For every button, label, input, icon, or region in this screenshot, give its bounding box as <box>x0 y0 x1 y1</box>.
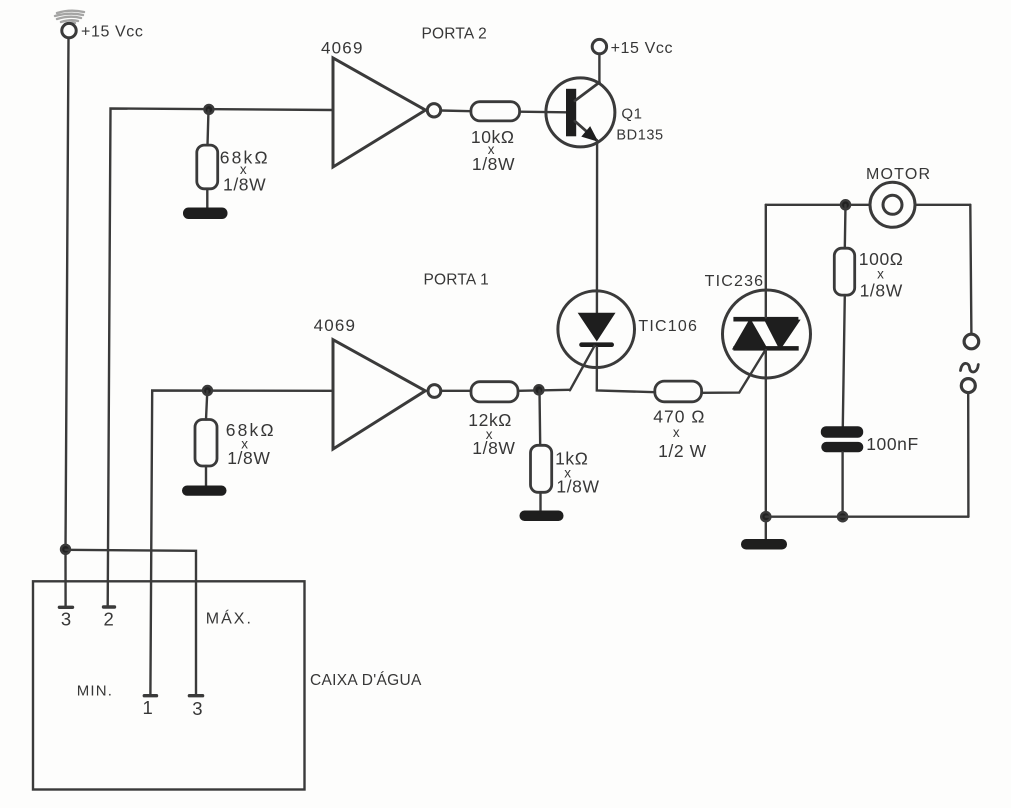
thyristor U2 TIC106 <box>558 291 635 368</box>
wire: TIC106 cathode down and right to R6 <box>597 347 655 392</box>
resistor R3 68kΩ <box>195 420 217 467</box>
terminal +15Vcc at Q1 collector <box>592 39 606 53</box>
svg-text:+15 Vcc: +15 Vcc <box>611 40 673 57</box>
transistor Q1 BD135 <box>546 78 615 147</box>
svg-text:TIC236: TIC236 <box>705 273 765 290</box>
water tank box CAIXA D'AGUA <box>33 581 305 789</box>
ground below R3 <box>182 486 227 496</box>
svg-text:3: 3 <box>192 698 202 719</box>
wire: R5 to ground <box>539 492 541 511</box>
wire: R6 to TIC236 gate <box>702 349 766 393</box>
resistor R1 68kΩ <box>197 145 218 189</box>
svg-text:BD135: BD135 <box>616 128 663 144</box>
node: junction dot motor rail / snubber <box>841 200 850 209</box>
op-amp U1A inverter 4069 PORTA 2 <box>333 58 441 167</box>
svg-text:PORTA 2: PORTA 2 <box>422 26 487 43</box>
wire: collector to +15Vcc terminal <box>598 54 600 83</box>
wire: motor rail left segment <box>766 204 871 206</box>
wire: junction down to R5 <box>538 391 541 446</box>
wire: motor rail right segment <box>915 204 970 206</box>
svg-text:1: 1 <box>142 697 152 718</box>
wire: left +15Vcc rail down to tank junction <box>66 38 69 549</box>
resistor R4 12kΩ <box>471 382 518 402</box>
node: junction dot at rail/tank branch <box>61 545 70 554</box>
terminal +15Vcc left <box>62 23 76 37</box>
node: junction dot PORTA 1 input / 68k <box>203 386 212 395</box>
terminal AC upper <box>964 334 979 349</box>
op-amp U1B inverter 4069 PORTA 1 <box>333 340 441 449</box>
svg-text:1/8W: 1/8W <box>472 438 515 458</box>
wire: snubber branch down to R7 <box>844 205 847 248</box>
node: junction dot TIC236 / bottom rail <box>761 512 770 521</box>
wire: C1 down to bottom rail <box>841 452 843 517</box>
svg-text:1/2 W: 1/2 W <box>658 441 707 461</box>
node: junction dot C1 / bottom rail <box>838 512 847 521</box>
svg-text:MÁX.: MÁX. <box>206 609 253 628</box>
svg-text:CAIXA D'ÁGUA: CAIXA D'ÁGUA <box>310 672 422 689</box>
wire: TIC106 gate diagonal <box>570 346 595 391</box>
electrode bar 3 (MAX) <box>189 694 202 697</box>
svg-text:1/8W: 1/8W <box>860 280 903 300</box>
node: junction dot R4 output / R5 <box>534 385 543 394</box>
wire: rail into tank electrode 3 <box>64 549 66 606</box>
wire: Q1 emitter down to TIC106 anode <box>596 140 599 332</box>
terminal AC lower <box>961 379 975 393</box>
wire: inverter B output to R4 <box>441 390 471 392</box>
wire: junction down to R3 <box>206 391 207 420</box>
wire: TIC236 main terminal up to motor rail <box>765 205 767 318</box>
resistor R2 10kΩ <box>471 102 520 121</box>
wire: TIC236 down to ground node <box>765 350 767 539</box>
wire: right AC rail upper <box>970 205 971 334</box>
ground below TIC236 <box>741 539 787 550</box>
svg-text:1/8W: 1/8W <box>472 154 515 174</box>
wire: PORTA 1 input net (down to MIN electrode 1) <box>150 391 333 696</box>
wire: PORTA 2 input net (down to electrode 2) <box>108 109 333 607</box>
svg-text:Q1: Q1 <box>621 106 642 123</box>
svg-text:4069: 4069 <box>314 316 357 335</box>
wire: R1 to ground <box>206 189 208 208</box>
resistor R6 470Ω <box>655 381 702 402</box>
node: junction dot PORTA 2 input / 68k <box>204 105 213 114</box>
svg-text:2: 2 <box>103 608 113 629</box>
wire: bottom rail <box>766 516 969 518</box>
wire: junction down to resistor R1 <box>208 110 209 145</box>
capacitor C1 100nF <box>821 426 864 452</box>
AC source squiggle <box>961 363 979 372</box>
wire: 12k output node to gate <box>518 390 569 391</box>
svg-text:4069: 4069 <box>321 39 364 58</box>
svg-text:1/8W: 1/8W <box>223 174 266 194</box>
svg-text:TIC106: TIC106 <box>638 318 698 335</box>
electrode bar 1 (MIN) <box>144 694 156 697</box>
wire: inverter output to R2 <box>441 109 471 112</box>
electrode bar 2 <box>104 605 115 608</box>
resistor R5 1kΩ <box>531 445 552 492</box>
wire: R7 down to capacitor C1 <box>843 295 845 426</box>
pencil smudge artifact <box>55 11 84 24</box>
svg-text:1kΩ: 1kΩ <box>555 449 588 469</box>
wire: R2 to transistor base <box>520 110 566 113</box>
svg-text:PORTA 1: PORTA 1 <box>424 272 489 289</box>
svg-text:68kΩ: 68kΩ <box>226 420 276 440</box>
svg-text:470 Ω: 470 Ω <box>653 407 705 427</box>
svg-text:MIN.: MIN. <box>77 682 113 699</box>
svg-text:x: x <box>673 425 680 440</box>
svg-text:1/8W: 1/8W <box>556 477 599 497</box>
motor M1 <box>870 182 915 227</box>
svg-text:1/8W: 1/8W <box>227 448 270 468</box>
electrode bar 3 (left) <box>59 606 72 609</box>
svg-text:3: 3 <box>61 609 71 630</box>
wire: R3 to ground <box>205 466 207 486</box>
resistor R7 100Ω <box>834 248 854 295</box>
triac U3 TIC236 <box>723 290 811 378</box>
wire: jog from junction to MAX electrode <box>66 550 197 695</box>
ground below R1 <box>183 208 228 220</box>
ground below R5 <box>520 511 564 522</box>
svg-text:MOTOR: MOTOR <box>866 166 931 183</box>
wire: right AC rail lower <box>967 393 970 517</box>
svg-text:100nF: 100nF <box>866 434 919 454</box>
svg-text:+15 Vcc: +15 Vcc <box>81 24 143 41</box>
